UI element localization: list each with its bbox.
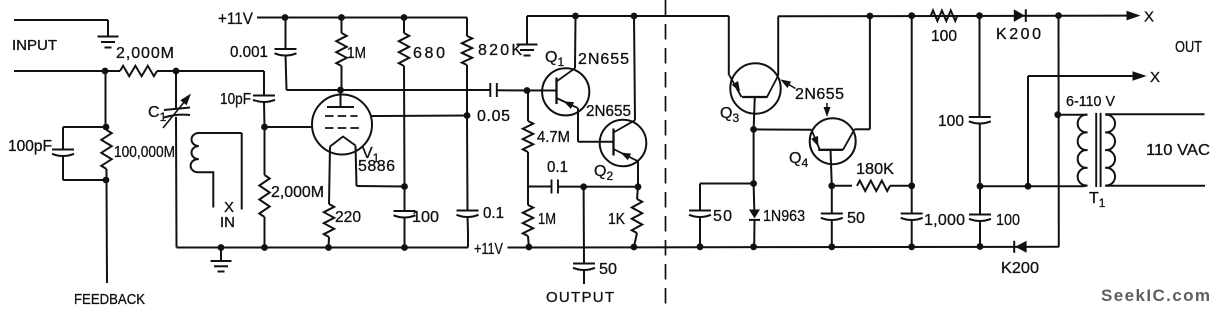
capacitor 10pF: [253, 95, 275, 97]
svg-text:6-110 V: 6-110 V: [1066, 93, 1115, 110]
capacitor 50 bias left: [689, 210, 711, 212]
svg-text:4.7M: 4.7M: [537, 129, 570, 146]
svg-text:220: 220: [335, 209, 361, 226]
svg-text:100pF: 100pF: [8, 138, 52, 155]
node Q4 base junction: [828, 182, 835, 189]
wire output drop: [583, 187, 585, 264]
capacitor C1 arrow: [163, 99, 187, 129]
wire grid line left: [265, 126, 313, 128]
wire top rail +11V: [257, 17, 467, 19]
node Q2 emitter junction: [635, 183, 642, 190]
ground bottom rail: [220, 248, 222, 262]
node input junction: [102, 68, 109, 75]
svg-text:2N655: 2N655: [795, 86, 844, 103]
resistor R 100 series: [931, 11, 958, 21]
arrow X out mid: [1133, 71, 1147, 81]
wire bottom rail right segment: [508, 246, 1060, 249]
node line B rail: [976, 12, 983, 19]
wire Q3 base net down: [753, 129, 755, 183]
svg-text:OUT: OUT: [1175, 39, 1202, 56]
svg-text:1M: 1M: [347, 45, 366, 62]
wire 10pF to grid: [263, 101, 266, 127]
svg-text:10pF: 10pF: [220, 91, 251, 108]
svg-text:1K: 1K: [608, 211, 625, 228]
capacitor 0.1 feedback: [551, 180, 553, 194]
svg-text:1N963: 1N963: [763, 208, 805, 225]
resistor R 220 cathode: [324, 204, 334, 237]
capacitor 1000: [911, 186, 913, 214]
node plate junction: [337, 87, 344, 94]
wire X riser: [1027, 76, 1029, 186]
node out rail junction: [1055, 12, 1062, 19]
svg-text:+11V: +11V: [474, 241, 503, 258]
svg-text:2N655: 2N655: [578, 51, 629, 68]
svg-text:FEEDBACK: FEEDBACK: [74, 291, 145, 308]
svg-text:100: 100: [931, 28, 957, 45]
node line A rail: [908, 12, 915, 19]
wire feedback line down: [106, 180, 109, 283]
diode K200 bottom: [1015, 241, 1026, 253]
transformer T1 primary: [1058, 114, 1088, 116]
svg-text:IN: IN: [220, 214, 235, 231]
wire secondary bottom: [1105, 185, 1205, 187]
wire 0.05 to Q1 base: [497, 89, 557, 91]
pointer arrow to Q3: [786, 83, 796, 89]
wire C1 vertical top: [175, 71, 177, 109]
node grid2 820K junction: [464, 112, 471, 119]
resistor R 820K: [466, 18, 468, 37]
node X riser junction: [1025, 183, 1032, 190]
wire to C1 node: [157, 70, 176, 72]
wire 100,000M bottom lead: [106, 169, 108, 180]
node filament junction: [401, 183, 408, 190]
transformer T1 secondary: [1105, 115, 1115, 186]
svg-text:INPUT: INPUT: [12, 37, 57, 54]
node Q1 base junction: [524, 87, 531, 94]
wire 100pF left bottom: [62, 155, 64, 180]
node 0.001 top: [282, 14, 289, 21]
pointer arrow to Q4: [826, 103, 828, 110]
node 1M bias bottom: [526, 244, 533, 251]
resistor R 180K: [832, 185, 852, 187]
node 180K right junction: [908, 182, 915, 189]
wire cathode left leg: [329, 147, 330, 205]
svg-text:180K: 180K: [856, 161, 894, 178]
wire Q4 collector lead: [855, 128, 870, 130]
svg-text:5886: 5886: [358, 158, 395, 175]
capacitor 100 upper: [969, 116, 991, 118]
svg-text:X: X: [1150, 69, 1160, 86]
ground input shield: [98, 36, 119, 38]
tube V1 grid2 dashed: [325, 115, 358, 117]
capacitor 0.1 decoupling: [466, 116, 469, 211]
svg-text:100: 100: [938, 113, 964, 130]
svg-text:50: 50: [713, 208, 732, 225]
wire Q4 base lead: [831, 150, 832, 186]
capacitor 50 output: [573, 263, 595, 265]
node 680 top: [401, 14, 408, 21]
node 1000 bottom: [908, 243, 915, 250]
capacitor 100pF: [52, 149, 74, 151]
wire Q3 emitter riser: [728, 16, 730, 76]
wire 100pF left top: [63, 126, 106, 128]
wire Q2 collector: [634, 16, 635, 120]
diode 1N963 zener: [753, 184, 756, 210]
wire input shield line: [14, 19, 108, 21]
wire mid ground rail: [527, 15, 729, 17]
wire grid2 to 820K: [371, 115, 467, 118]
resistor R 1M plate load: [341, 18, 343, 34]
node primary top junction: [1054, 111, 1061, 118]
svg-text:680: 680: [413, 45, 445, 62]
node Q4 collector rail: [867, 13, 874, 20]
node Q2 collector: [631, 13, 638, 20]
wire primary bottom line: [980, 185, 1084, 187]
resistor R 2,000M series: [120, 66, 157, 76]
node grid junction: [261, 124, 268, 131]
resistor R 2,000M grid leak: [264, 127, 266, 175]
svg-text:1,000: 1,000: [924, 212, 965, 229]
wire Q3 collector riser: [777, 16, 779, 75]
wire Q1 collector: [574, 16, 577, 68]
wire right vertical: [1058, 16, 1060, 247]
svg-text:100: 100: [996, 212, 1020, 229]
capacitor 50 Q4 base: [831, 186, 833, 214]
node 1M top: [338, 14, 345, 21]
node 100 line B bottom: [977, 243, 984, 250]
svg-text:X: X: [1144, 9, 1154, 26]
wire top rail right: [778, 15, 1127, 18]
svg-text:2N655: 2N655: [586, 103, 631, 120]
node 100pF top junction: [103, 124, 110, 131]
wire Q2 emitter: [637, 161, 639, 187]
wire secondary top: [1105, 113, 1204, 115]
svg-text:2,000M: 2,000M: [271, 184, 324, 201]
resistor R 1M bias: [527, 187, 529, 206]
wire cathode right leg: [356, 146, 357, 187]
svg-text:100,000M: 100,000M: [114, 144, 175, 161]
node 2,000M bottom: [261, 244, 268, 251]
svg-text:0.1: 0.1: [547, 159, 568, 176]
transistor Q1 2N655: [542, 68, 589, 115]
resistor R 100,000M: [101, 130, 111, 169]
wire to 50 bypass left: [700, 183, 754, 185]
svg-text:0.001: 0.001: [230, 44, 268, 61]
node C1 junction: [173, 68, 180, 75]
resistor R 680 filament: [403, 18, 405, 34]
svg-text:K200: K200: [1001, 260, 1039, 277]
tube V1 grid1 dashed: [325, 127, 359, 129]
tube V1 cathode: [330, 137, 356, 147]
node Q1 collector: [572, 13, 579, 20]
capacitor 0.001: [285, 18, 287, 50]
resistor R 1K emitter: [637, 187, 638, 199]
capacitor 100 filament bypass: [404, 187, 406, 212]
arrow X out top: [1127, 11, 1141, 21]
transistor Q2 2N655: [600, 120, 647, 167]
svg-text:110 VAC: 110 VAC: [1146, 142, 1210, 159]
resistor R 4.7M: [527, 91, 529, 122]
wire Q3 base lead: [754, 97, 755, 129]
capacitor 100 line B: [979, 186, 981, 214]
node 100 cap bottom: [401, 244, 408, 251]
wire emitter bus: [528, 186, 552, 188]
wire dashed section divider: [665, 0, 667, 312]
node 220 bottom: [325, 244, 332, 251]
node 50 Q4 bottom: [828, 243, 835, 250]
wire Q1 emitter to Q2 base: [577, 108, 579, 142]
inductor pickup coil X: [191, 133, 242, 208]
wire C1 vertical bottom: [175, 117, 178, 248]
svg-text:0.1: 0.1: [483, 205, 504, 222]
wire line B riser upper: [979, 16, 981, 117]
wire 0.1 to output node: [558, 186, 638, 188]
node output junction: [580, 183, 587, 190]
wire bottom rail left (+11V): [177, 247, 469, 249]
wire input line: [14, 70, 120, 72]
transformer T1 core: [1095, 113, 1097, 187]
tube V1 plate: [327, 106, 354, 108]
ground mid rail: [526, 16, 528, 45]
node 100,000M bottom junction: [103, 177, 110, 184]
wire junction to 10pF: [176, 70, 264, 72]
svg-text:0.05: 0.05: [477, 108, 510, 125]
svg-text:1M: 1M: [538, 211, 556, 228]
wire line A riser: [911, 16, 913, 186]
svg-text:50: 50: [599, 261, 617, 278]
tube V1 envelope: [312, 95, 372, 155]
transistor Q4 2N655: [810, 118, 856, 164]
node 50 left bottom: [697, 243, 704, 250]
wire plate bus: [287, 89, 491, 91]
svg-text:100: 100: [412, 209, 439, 226]
node line B junction: [977, 183, 984, 190]
svg-text:820K: 820K: [478, 42, 522, 59]
capacitor 0.05 coupling: [489, 83, 491, 97]
node rail ground junction: [218, 244, 225, 251]
svg-text:2,000M: 2,000M: [116, 45, 174, 62]
svg-text:+11V: +11V: [218, 9, 254, 28]
node Q3 base junction: [750, 126, 757, 133]
transistor Q3 2N655: [730, 63, 780, 113]
wire Q4 emitter lead: [754, 128, 812, 130]
svg-text:50: 50: [847, 210, 865, 227]
node zener bottom: [750, 243, 757, 250]
wire feedback vertical: [105, 71, 107, 127]
node 1K bottom: [631, 244, 638, 251]
diode K200 top: [1014, 9, 1025, 22]
capacitor C1 variable plates: [164, 108, 190, 111]
node zener junction: [750, 180, 757, 187]
